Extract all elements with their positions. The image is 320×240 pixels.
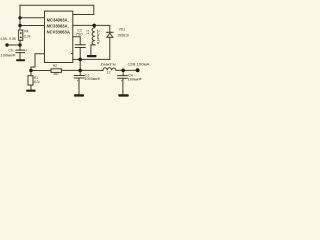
wire feedback node to R2: [31, 70, 51, 72]
node feedback divider: [29, 69, 33, 73]
capacitor C3 plates: [74, 76, 84, 79]
pin stub IC right edge inner tick: [71, 53, 72, 55]
svg-text:L2: L2: [107, 70, 111, 74]
node C2 ground rail: [78, 58, 82, 62]
capacitor C4 top lead: [122, 70, 124, 75]
svg-text:100мкФ: 100мкФ: [0, 53, 15, 57]
svg-text:1000мкФ: 1000мкФ: [84, 77, 100, 81]
ground C3: [74, 94, 84, 96]
svg-text:C9: C9: [8, 49, 12, 53]
wire R4 to input line: [19, 40, 21, 45]
svg-text:L1: L1: [86, 30, 90, 34]
svg-text:0,24: 0,24: [24, 34, 31, 38]
svg-text:360: 360: [53, 72, 59, 76]
wire diode to ground rail: [109, 37, 111, 59]
capacitor C4 bottom lead: [122, 78, 124, 94]
svg-text:+: +: [121, 79, 123, 83]
resistor R2 body: [51, 69, 61, 73]
svg-text:1мкГн: 1мкГн: [100, 63, 116, 67]
capacitor C3 top lead: [79, 70, 81, 75]
wire ground rail to output rail: [79, 59, 81, 70]
ground R1: [26, 90, 35, 92]
wire R1 to ground: [30, 85, 32, 90]
node output terminal: [136, 68, 140, 72]
node Vin pin18: [18, 24, 21, 27]
svg-text:NCV33063A: NCV33063A: [47, 30, 70, 35]
resistor R4 body: [19, 30, 23, 40]
svg-text:750: 750: [76, 33, 83, 37]
wire L2 to output terminal: [116, 69, 138, 71]
inductor L2 coil: [103, 68, 116, 71]
svg-text:-12В 100мА: -12В 100мА: [126, 63, 150, 67]
capacitor C3 bottom lead: [78, 78, 80, 94]
capacitor C9 plates: [16, 50, 25, 53]
node input terminal: [5, 43, 8, 46]
wire Vin top loop to IC pin 6: [20, 5, 94, 14]
wire input terminal line: [6, 44, 20, 46]
svg-text:8,2к: 8,2к: [34, 80, 40, 84]
svg-text:MC33063A,: MC33063A,: [47, 24, 69, 29]
diode VD1 cathode bar: [107, 31, 113, 33]
capacitor C9 top lead: [19, 45, 21, 50]
node switch L1 top: [92, 24, 96, 28]
wire resistor R1 top lead: [30, 71, 32, 76]
wire IC pin 3 to C2: [73, 37, 80, 45]
ground C4: [118, 94, 128, 96]
wire IC ground rail pin 4: [73, 58, 110, 60]
wire IC pin 5 to feedback node: [31, 54, 45, 71]
node C4 output rail: [121, 69, 125, 73]
wire L1 bottom to ground: [91, 45, 95, 55]
IC U1 MC34063A box: [45, 11, 73, 62]
svg-text:22мкГн: 22мкГн: [96, 29, 100, 45]
ground L1: [87, 55, 97, 57]
node input R4 junction: [18, 43, 21, 46]
node C3 output rail: [78, 69, 82, 73]
wire node to IC pin 7: [20, 17, 45, 19]
capacitor C4 plates: [118, 76, 128, 79]
resistor R4 power marks: [20, 32, 22, 33]
svg-text:+: +: [25, 48, 27, 52]
wire switch node to diode: [94, 25, 110, 32]
svg-text:VD1: VD1: [119, 27, 126, 31]
wire IC pin 2 to switch node: [73, 24, 94, 26]
wire R2 to C3 node: [61, 69, 103, 71]
wire left vertical Vin branch: [19, 5, 21, 30]
svg-text:R2: R2: [53, 64, 57, 68]
svg-text:MC34063A,: MC34063A,: [47, 18, 69, 23]
ground C9: [16, 59, 25, 61]
inductor L1 coil: [92, 25, 95, 45]
capacitor C2 plates: [75, 45, 85, 48]
resistor R1 body: [28, 76, 33, 85]
capacitor C9 bottom lead: [19, 53, 21, 60]
svg-text:4,5В...9,3В: 4,5В...9,3В: [0, 37, 16, 41]
wire node to IC pin 1,8: [20, 25, 45, 27]
svg-text:+: +: [77, 79, 79, 83]
svg-text:R4: R4: [24, 30, 28, 34]
capacitor C2 bottom lead: [79, 48, 81, 60]
node Vin pin7: [18, 16, 21, 19]
svg-text:100мкФ: 100мкФ: [128, 77, 142, 81]
svg-text:1N5819: 1N5819: [117, 34, 129, 38]
diode VD1 triangle: [107, 33, 113, 37]
